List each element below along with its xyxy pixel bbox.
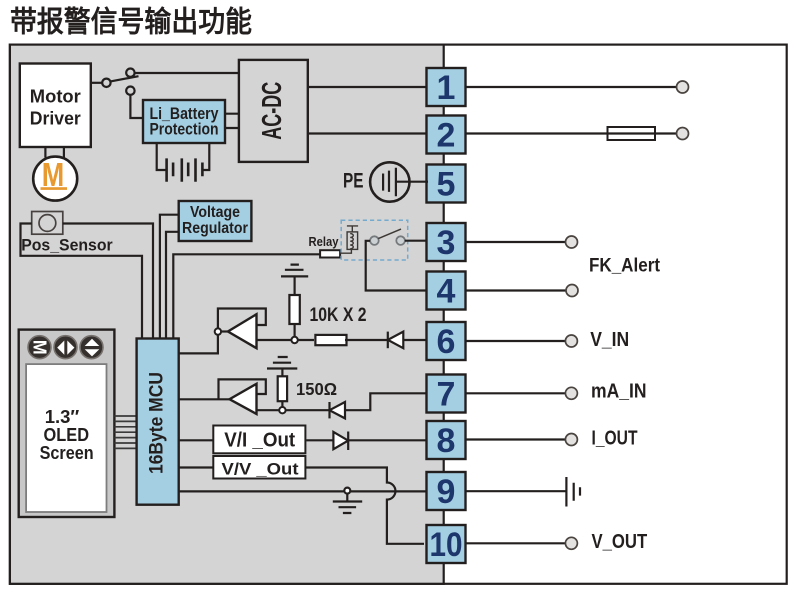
block Voltage Regulator <box>179 201 252 241</box>
svg-text:2: 2 <box>437 117 456 155</box>
wire terminal 3 to connector <box>466 241 567 243</box>
title 带报警信号输出功能 <box>10 5 252 39</box>
wire switch to AC-DC <box>135 72 239 74</box>
svg-text:PE: PE <box>343 169 364 192</box>
connector circle 4 <box>566 285 578 297</box>
svg-text:V_OUT: V_OUT <box>592 531 648 553</box>
block Li_Battery Protection <box>143 100 225 143</box>
wire diode D1 to terminal 6 <box>403 339 426 341</box>
sensor Pos_Sensor <box>21 212 113 255</box>
svg-text:M: M <box>29 340 49 355</box>
node B <box>279 407 285 413</box>
wire Li_Battery to AC-DC (2) <box>225 114 239 128</box>
terminal 10 <box>427 525 466 564</box>
wire terminal 4 to connector <box>466 289 567 291</box>
diode D3 <box>333 432 348 451</box>
svg-text:7: 7 <box>437 376 456 414</box>
svg-text:10: 10 <box>430 526 463 564</box>
mcu U3 16Byte MCU <box>137 339 179 505</box>
wire motor driver to motor <box>45 147 64 158</box>
ground G2 <box>267 357 297 376</box>
svg-text:16Byte MCU: 16Byte MCU <box>147 372 168 474</box>
terminal 6 <box>427 322 466 361</box>
switch S1 <box>91 69 139 95</box>
svg-text:I_OUT: I_OUT <box>592 427 638 449</box>
wire Pos_Sensor left loop to MCU <box>21 224 143 339</box>
block AC-DC <box>239 60 308 162</box>
svg-text:9: 9 <box>437 473 456 511</box>
svg-text:V/V _Out: V/V _Out <box>222 459 299 478</box>
wire diode D2 to terminal 7 <box>345 393 426 410</box>
diode D2 <box>330 402 346 418</box>
wire terminal 6 to connector <box>465 340 566 342</box>
svg-text:Screen: Screen <box>40 442 94 463</box>
svg-text:带报警信号输出功能: 带报警信号输出功能 <box>10 5 252 39</box>
svg-text:3: 3 <box>437 224 456 262</box>
terminal 4 <box>427 272 466 311</box>
block Motor Driver <box>20 64 91 148</box>
wire MCU to V/I _Out <box>179 439 213 441</box>
svg-text:Relay: Relay <box>309 234 340 249</box>
wire AC-DC to terminal 1 <box>308 86 428 88</box>
connector circle 2 <box>677 128 689 140</box>
svg-text:Driver: Driver <box>30 109 81 129</box>
display OLED module <box>19 330 115 517</box>
wire terminal 8 to connector <box>465 438 566 440</box>
wire OLED ribbon to MCU <box>114 416 136 448</box>
relay K1 <box>340 220 408 260</box>
wire terminal 7 to connector <box>465 392 566 394</box>
wire Voltage Regulator to MCU (2) <box>160 215 179 339</box>
connector circle 8 <box>565 434 577 446</box>
svg-text:V_IN: V_IN <box>590 329 629 351</box>
svg-text:Motor: Motor <box>30 87 81 107</box>
wire V/V _Out to terminal 10 with hop <box>305 468 424 544</box>
svg-text:4: 4 <box>437 273 456 311</box>
battery BT1 <box>157 143 210 182</box>
svg-text:Pos_Sensor: Pos_Sensor <box>21 235 113 254</box>
wire Pos_Sensor right to MCU <box>63 224 153 339</box>
wire terminal 9 to chassis ground <box>465 490 566 492</box>
connector circle 1 <box>677 81 689 93</box>
svg-text:150Ω: 150Ω <box>296 379 337 399</box>
svg-text:AC-DC: AC-DC <box>256 82 287 140</box>
resistor R relay <box>320 250 340 257</box>
PE earth symbol <box>343 162 428 201</box>
resistor 150ohm <box>278 376 287 401</box>
op-amp U1 <box>179 309 292 354</box>
wire MCU to V/V _Out <box>179 466 214 468</box>
terminal 8 <box>427 421 466 460</box>
svg-text:6: 6 <box>437 323 456 361</box>
wire resistor to diode D1 <box>345 339 388 341</box>
ground G3 tap <box>333 488 362 513</box>
svg-text:8: 8 <box>437 422 456 460</box>
resistor 10K vertical <box>289 295 299 324</box>
wire terminal 2 to connector <box>465 132 677 134</box>
wire MCU to terminal 9 <box>179 490 426 492</box>
node A <box>291 337 297 343</box>
svg-text:Voltage: Voltage <box>190 204 240 221</box>
wire resistor to node <box>294 324 296 337</box>
terminal 1 <box>427 68 466 107</box>
wire switch to Li_Battery <box>130 95 143 118</box>
svg-text:Protection: Protection <box>150 120 219 139</box>
ground G1 <box>281 265 308 295</box>
block V/I _Out <box>213 426 305 454</box>
wire relay contact to terminal 3 <box>405 240 428 242</box>
diode D1 <box>388 332 404 349</box>
wire node to resistor 10K horizontal <box>298 339 314 341</box>
wire MCU to relay coil <box>173 254 320 338</box>
svg-text:10K X 2: 10K X 2 <box>310 305 367 326</box>
fuse F1 <box>608 127 656 140</box>
terminal 5 <box>427 165 466 204</box>
wire V/I _Out to diode D3 <box>306 439 333 441</box>
wire terminal 1 to connector <box>465 86 677 88</box>
svg-text:V/I _Out: V/I _Out <box>224 430 295 452</box>
wire node B to diode D2 <box>286 409 330 411</box>
wire resistor to node B <box>281 401 283 407</box>
svg-text:FK_Alert: FK_Alert <box>589 256 661 277</box>
wire relay contact to terminal 4 <box>366 241 428 291</box>
svg-text:mA_IN: mA_IN <box>591 381 647 403</box>
wire AC-DC to terminal 2 <box>308 132 428 134</box>
terminal 2 <box>427 116 466 155</box>
wire diode D3 to terminal 8 <box>348 439 428 441</box>
connector circle 10 <box>565 537 577 549</box>
block V/V _Out <box>213 456 305 479</box>
resistor 10K horizontal <box>315 335 346 345</box>
connector circle 3 <box>566 236 578 248</box>
connector circle 7 <box>565 387 577 399</box>
terminal 3 <box>427 223 466 262</box>
svg-text:5: 5 <box>437 166 456 204</box>
connector circle 6 <box>565 335 577 347</box>
svg-text:1: 1 <box>437 69 456 107</box>
op-amp U2 <box>179 379 280 414</box>
motor M1 <box>33 156 77 200</box>
terminal 9 <box>427 472 466 511</box>
wire terminal 10 to connector <box>465 542 566 544</box>
svg-text:Regulator: Regulator <box>182 220 248 237</box>
terminal 7 <box>427 375 466 414</box>
ground G4 chassis <box>566 477 580 507</box>
